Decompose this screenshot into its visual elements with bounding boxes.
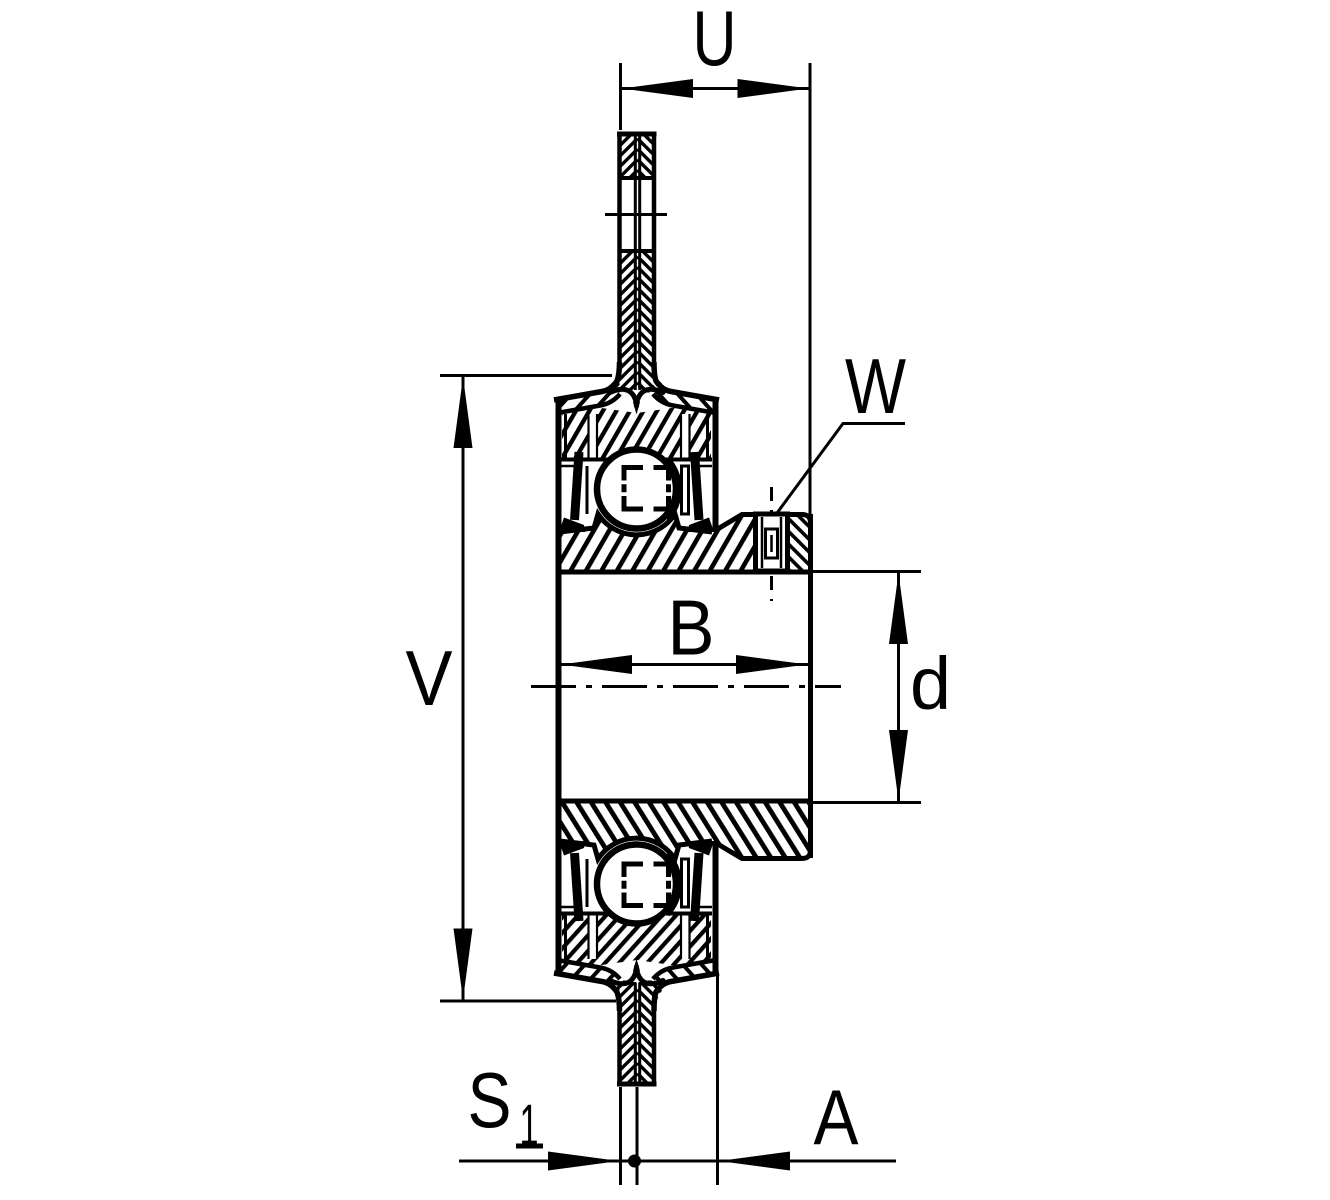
svg-text:A: A: [814, 1073, 859, 1161]
svg-text:U: U: [693, 0, 737, 82]
svg-text:d: d: [910, 642, 951, 725]
svg-text:W: W: [845, 342, 906, 430]
svg-text:V: V: [406, 634, 453, 722]
svg-text:S: S: [468, 1056, 512, 1144]
svg-text:B: B: [668, 583, 715, 671]
